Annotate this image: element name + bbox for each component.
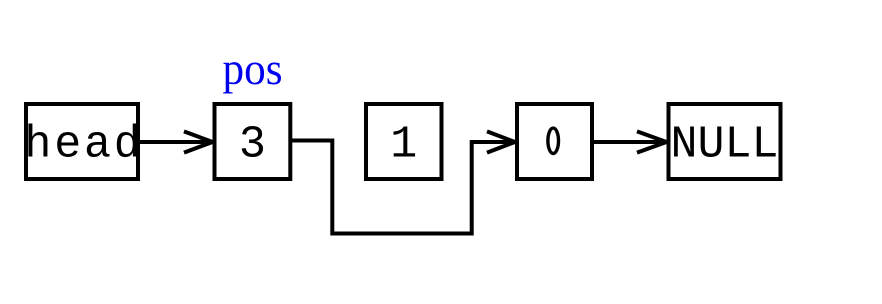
svg-text:NULL: NULL (670, 120, 778, 171)
arrowhead into node 0 (487, 131, 515, 152)
node 0 box (517, 104, 592, 179)
svg-text:3: 3 (239, 120, 266, 171)
node head box (26, 104, 138, 179)
node NULL box (669, 104, 781, 179)
node 1 box (366, 104, 442, 179)
wire elbow from node 3 around node 1 (292, 141, 513, 234)
node 3 box (215, 104, 291, 179)
label 0 (plain oval zero) (548, 128, 559, 153)
pointer arrow head to node 3 (140, 131, 213, 152)
svg-text:head: head (24, 120, 143, 171)
svg-text:1: 1 (390, 120, 417, 171)
svg-text:pos: pos (223, 44, 283, 94)
pointer arrow node 0 to NULL (594, 131, 667, 152)
